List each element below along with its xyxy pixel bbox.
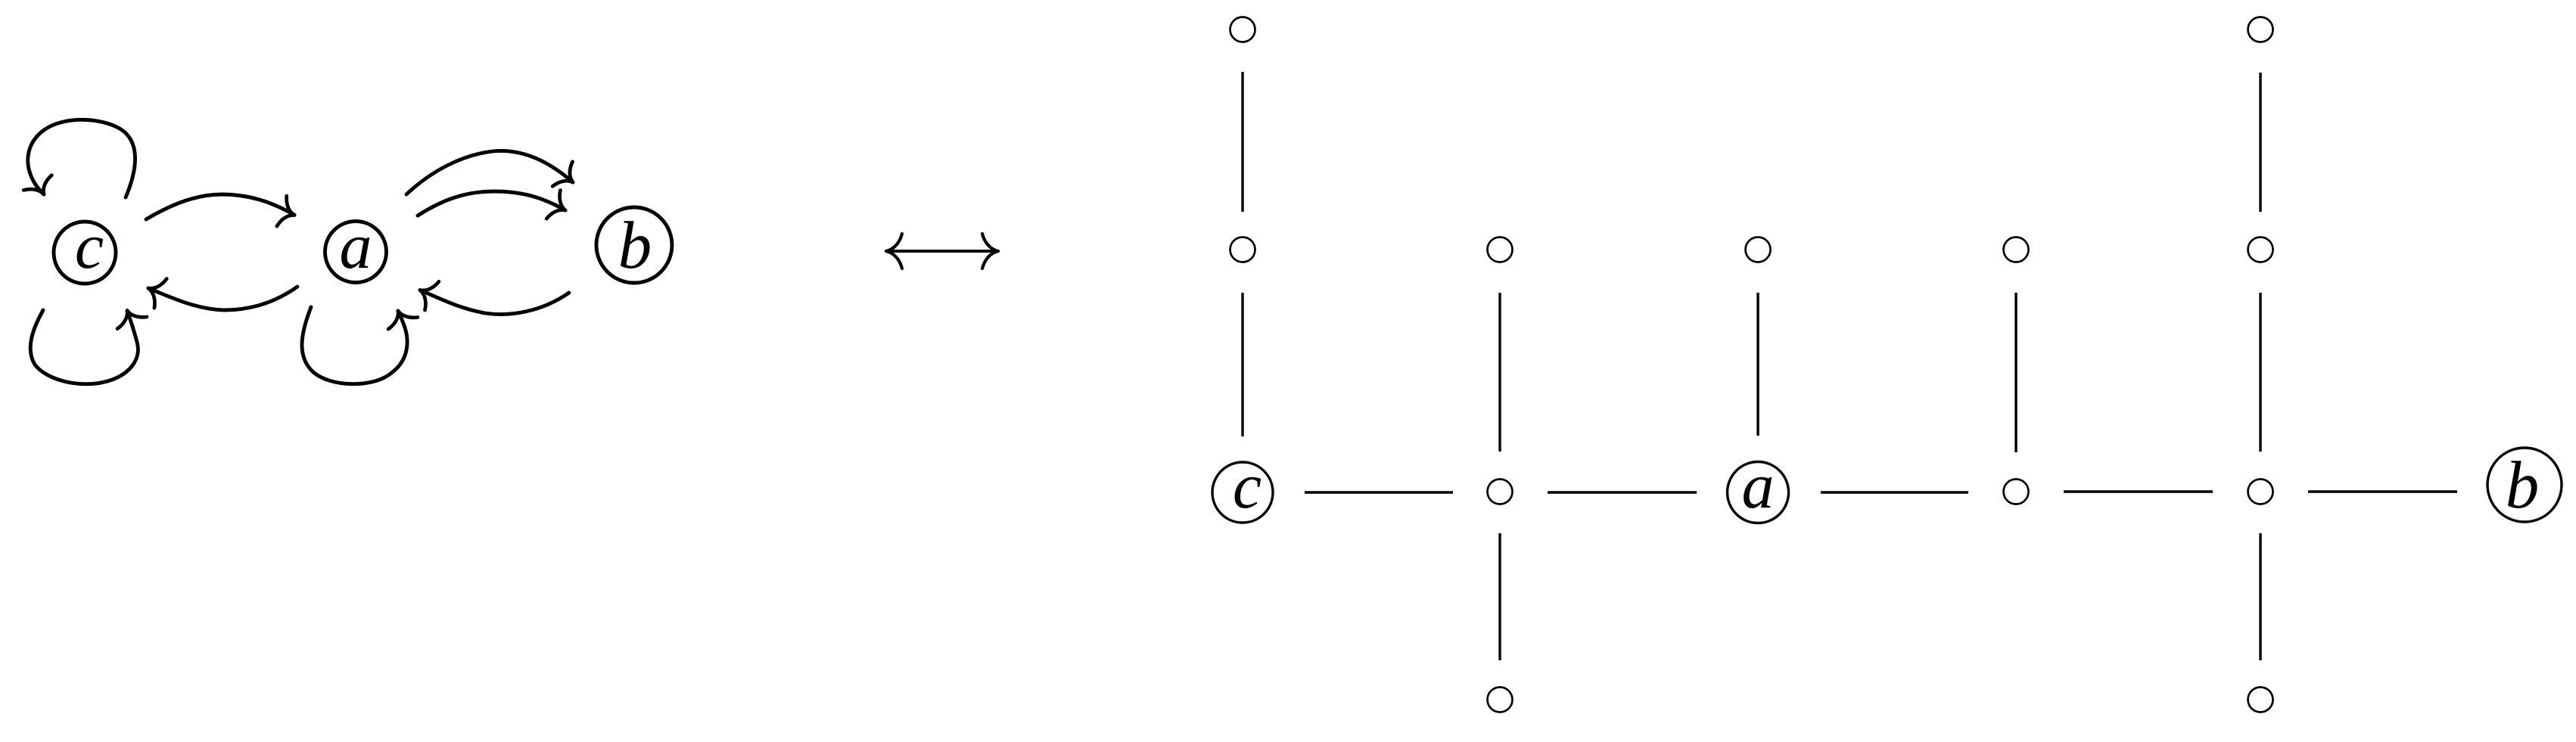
svg-text:b: b <box>618 209 652 283</box>
svg-text:a: a <box>1742 449 1775 522</box>
svg-text:c: c <box>75 210 104 282</box>
svg-text:c: c <box>1233 449 1262 522</box>
svg-text:b: b <box>2506 449 2540 523</box>
svg-text:a: a <box>340 210 372 282</box>
